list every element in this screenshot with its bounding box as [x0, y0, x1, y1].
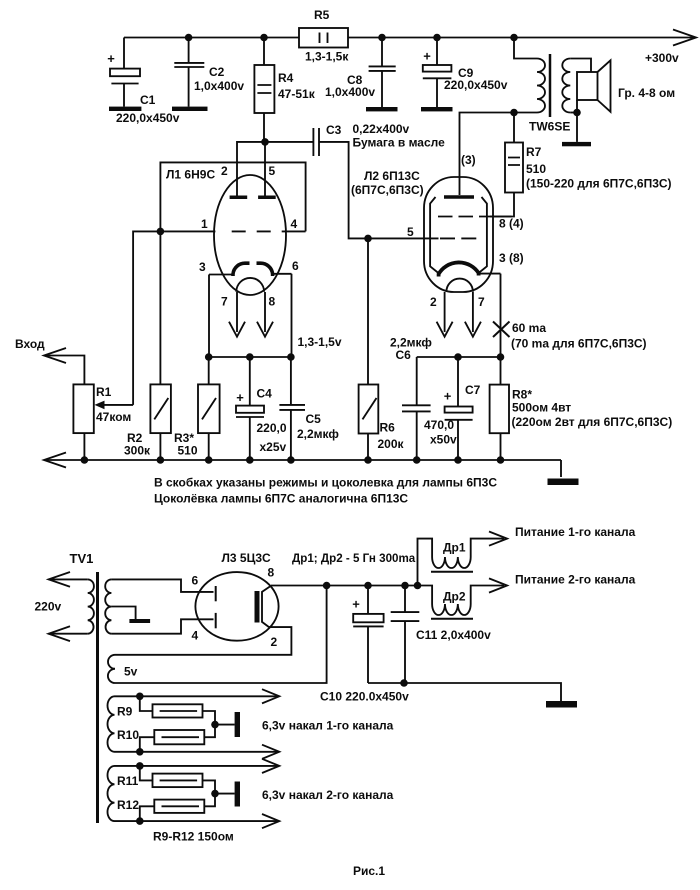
capacitor C3: [313, 122, 445, 156]
svg-text:4: 4: [291, 217, 298, 231]
ground bar under C9: [421, 107, 453, 111]
svg-text:5: 5: [407, 225, 414, 239]
wire node to C3: [265, 141, 313, 143]
svg-text:+: +: [352, 597, 360, 612]
node dot heater2 bottom: [136, 817, 144, 825]
svg-text:Гр. 4-8 ом: Гр. 4-8 ом: [618, 86, 675, 100]
svg-text:8: 8: [269, 295, 276, 309]
node dot choke branch: [414, 582, 422, 590]
svg-text:Питание 1-го канала: Питание 1-го канала: [515, 525, 636, 539]
svg-text:C3: C3: [326, 123, 342, 137]
svg-text:2: 2: [430, 295, 437, 309]
node dot heater2 top: [136, 762, 144, 770]
svg-text:3: 3: [199, 260, 206, 274]
tube L2 control grid g1 pin 5: [407, 225, 480, 239]
coupling node dot anodes/R4/C3: [261, 138, 269, 146]
svg-text:300к: 300к: [124, 444, 151, 458]
svg-text:Л2 6П13С: Л2 6П13С: [364, 169, 420, 183]
node dot 5v riser: [323, 582, 331, 590]
node dots L1 cathode rail: [205, 353, 213, 361]
svg-text:Др1: Др1: [443, 541, 466, 555]
resistor R9: [117, 696, 215, 724]
wire L1 cathode rail: [209, 356, 292, 358]
X mark 60ma measure point: [493, 321, 647, 351]
potentiometer R1: [73, 231, 160, 460]
svg-text:60 ma: 60 ma: [512, 321, 546, 335]
resistor R2: [124, 231, 171, 460]
svg-text:510: 510: [526, 162, 546, 176]
wire C3 to L2 grid: [319, 142, 439, 239]
svg-text:(220ом 2вт для 6П7С,6П3С): (220ом 2вт для 6П7С,6П3С): [512, 415, 673, 429]
wire ground rail to ground symbol: [560, 460, 562, 477]
transformer TV1 heater winding 1: [108, 696, 115, 752]
resistor R12: [117, 794, 215, 822]
svg-text:(150-220 для 6П7С,6П3С): (150-220 для 6П7С,6П3С): [526, 177, 672, 191]
svg-text:5: 5: [269, 164, 276, 178]
wire speaker to ground: [576, 100, 578, 142]
capacitor C1: [107, 38, 180, 126]
svg-text:R7: R7: [526, 145, 542, 159]
svg-text:R5: R5: [314, 8, 330, 22]
svg-text:Питание 2-го канала: Питание 2-го канала: [515, 573, 636, 587]
svg-text:Вход: Вход: [15, 337, 45, 351]
svg-text:R9-R12 150ом: R9-R12 150ом: [153, 830, 234, 844]
tube L3 anode plate pin 6: [215, 586, 217, 601]
capacitor C4: [236, 357, 287, 460]
svg-text:2: 2: [271, 635, 278, 649]
transformer TV1 heater winding 2: [107, 766, 114, 821]
svg-text:R10: R10: [117, 728, 139, 742]
input wire with arrow: [44, 348, 84, 384]
node dot R4/rail: [260, 34, 268, 42]
svg-text:C7: C7: [465, 383, 481, 397]
node dot primary bottom / R7 / anode: [510, 109, 518, 117]
svg-text:R1: R1: [96, 385, 112, 399]
wire HV bottom to rectifier anode pin 4: [111, 619, 213, 642]
resistor R3: [174, 357, 220, 460]
tube L1 heater pin 7 with arrow: [221, 292, 245, 337]
svg-text:C5: C5: [306, 412, 322, 426]
tube L2 cathode pin 3(8): [439, 251, 524, 277]
wire L2 anode to transformer: [460, 113, 515, 196]
svg-text:2: 2: [221, 164, 228, 178]
tube L2 anode bar: [444, 195, 474, 199]
capacitor C5: [279, 357, 339, 460]
node dot speaker bottom: [573, 109, 581, 117]
transformer TV1 core: [96, 572, 99, 823]
svg-text:470,0: 470,0: [424, 418, 454, 432]
svg-text:510: 510: [178, 444, 198, 458]
svg-text:200к: 200к: [378, 437, 405, 451]
svg-text:2,2мкф: 2,2мкф: [297, 427, 339, 441]
svg-text:5v: 5v: [124, 665, 138, 679]
capacitor C11: [391, 586, 491, 684]
capacitor C8: [325, 38, 396, 108]
tube L3 envelope circle: [195, 572, 278, 641]
svg-text:+: +: [423, 49, 431, 64]
svg-text:C1: C1: [140, 93, 156, 107]
resistor R11: [117, 766, 215, 794]
svg-text:Др2: Др2: [443, 590, 466, 604]
svg-text:220,0: 220,0: [257, 421, 287, 435]
svg-text:R4: R4: [278, 71, 294, 85]
tube L1 envelope: [214, 175, 286, 295]
node dot R9/R10 center: [211, 721, 219, 729]
tube L2 heater dome: [446, 279, 473, 292]
svg-text:TW6SE: TW6SE: [529, 120, 570, 134]
tube L2 screen grid g2 pin 8(4): [438, 217, 524, 231]
capacitor C6: [390, 336, 432, 461]
heater winding 2 top lead with arrow: [115, 759, 280, 773]
svg-text:220,0x450v: 220,0x450v: [116, 111, 180, 125]
resistor R10: [117, 725, 215, 752]
tube L1 connection box: [160, 162, 305, 231]
node dots L2 cathode rail: [454, 353, 462, 361]
svg-text:3 (8): 3 (8): [499, 251, 524, 265]
speaker Гр. 4-8 ом: [577, 60, 675, 112]
resistor R8: [490, 357, 673, 460]
tube L2 beam plates: [430, 197, 487, 274]
tube L3 filament lead: [262, 586, 271, 627]
heater winding 1 bottom lead with arrow: [115, 745, 280, 759]
svg-text:1,0x400v: 1,0x400v: [194, 79, 244, 93]
resistor R6: [359, 238, 405, 460]
B+ rail from pin 8: [271, 585, 418, 587]
svg-text:1,3-1,5к: 1,3-1,5к: [305, 50, 349, 64]
transformer TW6SE core: [549, 54, 552, 117]
svg-text:x50v: x50v: [430, 433, 457, 447]
transformer TV1 5v winding: [108, 655, 138, 683]
svg-text:8: 8: [268, 566, 275, 580]
svg-text:1: 1: [201, 217, 208, 231]
node dot C10 top: [364, 582, 372, 590]
svg-text:Бумага в масле: Бумага в масле: [353, 136, 446, 150]
svg-text:(70 ma для 6П7С,6П3С): (70 ma для 6П7С,6П3С): [511, 337, 647, 351]
node dot L2 grid / R6: [364, 235, 372, 243]
svg-text:+: +: [444, 389, 452, 404]
transformer TW6SE primary: [514, 38, 545, 113]
svg-text:220v: 220v: [35, 600, 62, 614]
svg-text:R8*: R8*: [512, 388, 532, 402]
node dot R11/R12 center: [211, 790, 219, 798]
svg-text:x25v: x25v: [260, 440, 287, 454]
svg-text:Др1; Др2 - 5 Гн 300ma: Др1; Др2 - 5 Гн 300ma: [292, 552, 416, 565]
svg-text:0,22x400v: 0,22x400v: [353, 122, 410, 136]
svg-text:С6: С6: [396, 348, 412, 362]
chassis bar heater 1: [215, 712, 240, 737]
svg-text:+: +: [236, 390, 244, 405]
svg-text:6: 6: [192, 574, 199, 588]
svg-text:6: 6: [292, 259, 299, 273]
tube L1 heater dome: [236, 278, 264, 292]
svg-text:7: 7: [478, 295, 485, 309]
node dot heater1 top: [136, 693, 144, 701]
ground bar under C2: [172, 107, 208, 111]
transformer TW6SE secondary: [529, 59, 591, 134]
svg-text:7: 7: [221, 295, 228, 309]
ground rail with left arrow: [44, 453, 561, 468]
tube L2 label: [351, 169, 424, 197]
node dot C2/rail: [185, 34, 193, 42]
wire pin 2 to 5v winding: [115, 627, 291, 655]
svg-text:Л3 5Ц3С: Л3 5Ц3С: [222, 551, 272, 565]
svg-text:Рис.1: Рис.1: [353, 864, 385, 878]
wire L1 cathode drops: [209, 274, 292, 357]
primary top lead with arrow: [49, 572, 88, 587]
svg-text:220,0x450v: 220,0x450v: [444, 78, 508, 92]
node dot transformer primary top: [510, 34, 518, 42]
svg-text:R6: R6: [380, 421, 396, 435]
svg-text:47-51к: 47-51к: [278, 87, 316, 101]
wire top +300v rail right part with arrow: [348, 30, 696, 66]
resistor R7: [490, 113, 672, 217]
svg-text:500ом 4вт: 500ом 4вт: [512, 401, 571, 415]
tube L1 grid dashed line pins 1,4: [160, 217, 305, 231]
node dots ground rail: [81, 456, 89, 464]
svg-text:C2: C2: [209, 65, 225, 79]
tube L1 cathode arcs pins 3,6: [199, 259, 299, 276]
resistor R4: [254, 38, 315, 142]
svg-text:(3): (3): [461, 153, 476, 167]
node dot heater1 bottom: [136, 748, 144, 756]
capacitor C7: [424, 357, 481, 460]
svg-text:8 (4): 8 (4): [499, 217, 524, 231]
node dot C9/rail: [433, 34, 441, 42]
node dot C11 top: [401, 582, 409, 590]
ground bar under speaker: [562, 142, 591, 146]
svg-text:+300v: +300v: [645, 51, 679, 65]
ground bar under C8: [366, 107, 398, 111]
choke Dr2: [418, 578, 508, 618]
tube L3 filament bar: [255, 591, 260, 623]
tube L1 heater pin 8 with arrow: [257, 292, 276, 337]
svg-text:47ком: 47ком: [96, 410, 131, 424]
wire top +300v rail left part: [124, 37, 299, 39]
capacitor C10: [320, 586, 409, 704]
svg-text:C10 220.0x450v: C10 220.0x450v: [320, 690, 409, 704]
svg-text:6,3v накал 2-го канала: 6,3v накал 2-го канала: [262, 788, 394, 802]
svg-text:+: +: [107, 51, 115, 66]
wire L2 cathode rail: [417, 356, 501, 358]
wire L2 cathode down: [500, 274, 502, 357]
wire 5v winding bottom to B+ rail: [115, 586, 327, 684]
svg-text:R9: R9: [117, 705, 133, 719]
capacitor C2: [174, 38, 244, 107]
svg-text:Л1 6Н9С: Л1 6Н9С: [166, 168, 215, 182]
transformer TV1 primary 220v winding: [88, 579, 94, 633]
ground bar under C1: [109, 107, 141, 111]
svg-text:Цоколёвка лампы 6П7С аналогичн: Цоколёвка лампы 6П7С аналогична 6П13С: [154, 492, 408, 506]
svg-text:C11 2,0x400v: C11 2,0x400v: [416, 628, 491, 642]
svg-text:В скобках указаны режимы и цок: В скобках указаны режимы и цоколевка для…: [154, 476, 497, 490]
node dot C8/rail: [378, 34, 386, 42]
heater winding 1 top lead with arrow: [115, 689, 280, 703]
svg-text:(6П7С,6П3С): (6П7С,6П3С): [351, 183, 424, 197]
primary bottom lead with arrow: [49, 626, 88, 641]
svg-text:TV1: TV1: [70, 551, 94, 566]
wire HV top to rectifier anode pin 6: [111, 574, 213, 592]
bottom ground wire: [368, 683, 561, 701]
tube L1 anode bars: [230, 196, 276, 200]
tube L3 anode plate pin 4: [215, 613, 217, 628]
chassis bar heater 2: [215, 782, 240, 807]
svg-text:1,0x400v: 1,0x400v: [325, 85, 375, 99]
tube L2 heater pin 7 with arrow: [465, 292, 485, 337]
tube L2 envelope: [424, 177, 493, 292]
transformer TV1 HV secondary winding: [105, 579, 111, 633]
HV center tap with chassis bar: [111, 607, 150, 624]
node dot C11 bottom: [400, 679, 408, 687]
svg-text:R12: R12: [117, 798, 139, 812]
ground bar main (bottom section): [546, 701, 577, 708]
tube L2 heater pin 2 with arrow: [430, 292, 453, 337]
tube L1 anode leads pins 2,5: [221, 142, 276, 196]
svg-text:1,3-1,5v: 1,3-1,5v: [298, 335, 342, 349]
resistor R5: [299, 8, 349, 64]
choke Dr1: [418, 532, 508, 586]
svg-text:6,3v накал 1-го канала: 6,3v накал 1-го канала: [262, 719, 394, 733]
svg-text:4: 4: [192, 629, 199, 643]
heater winding 2 bottom lead with arrow: [115, 814, 280, 828]
capacitor C9: [423, 38, 508, 108]
node dot L1 grid junction: [157, 228, 165, 236]
svg-text:C4: C4: [257, 387, 273, 401]
ground bar main (top section): [548, 479, 579, 486]
svg-text:R11: R11: [117, 774, 139, 788]
